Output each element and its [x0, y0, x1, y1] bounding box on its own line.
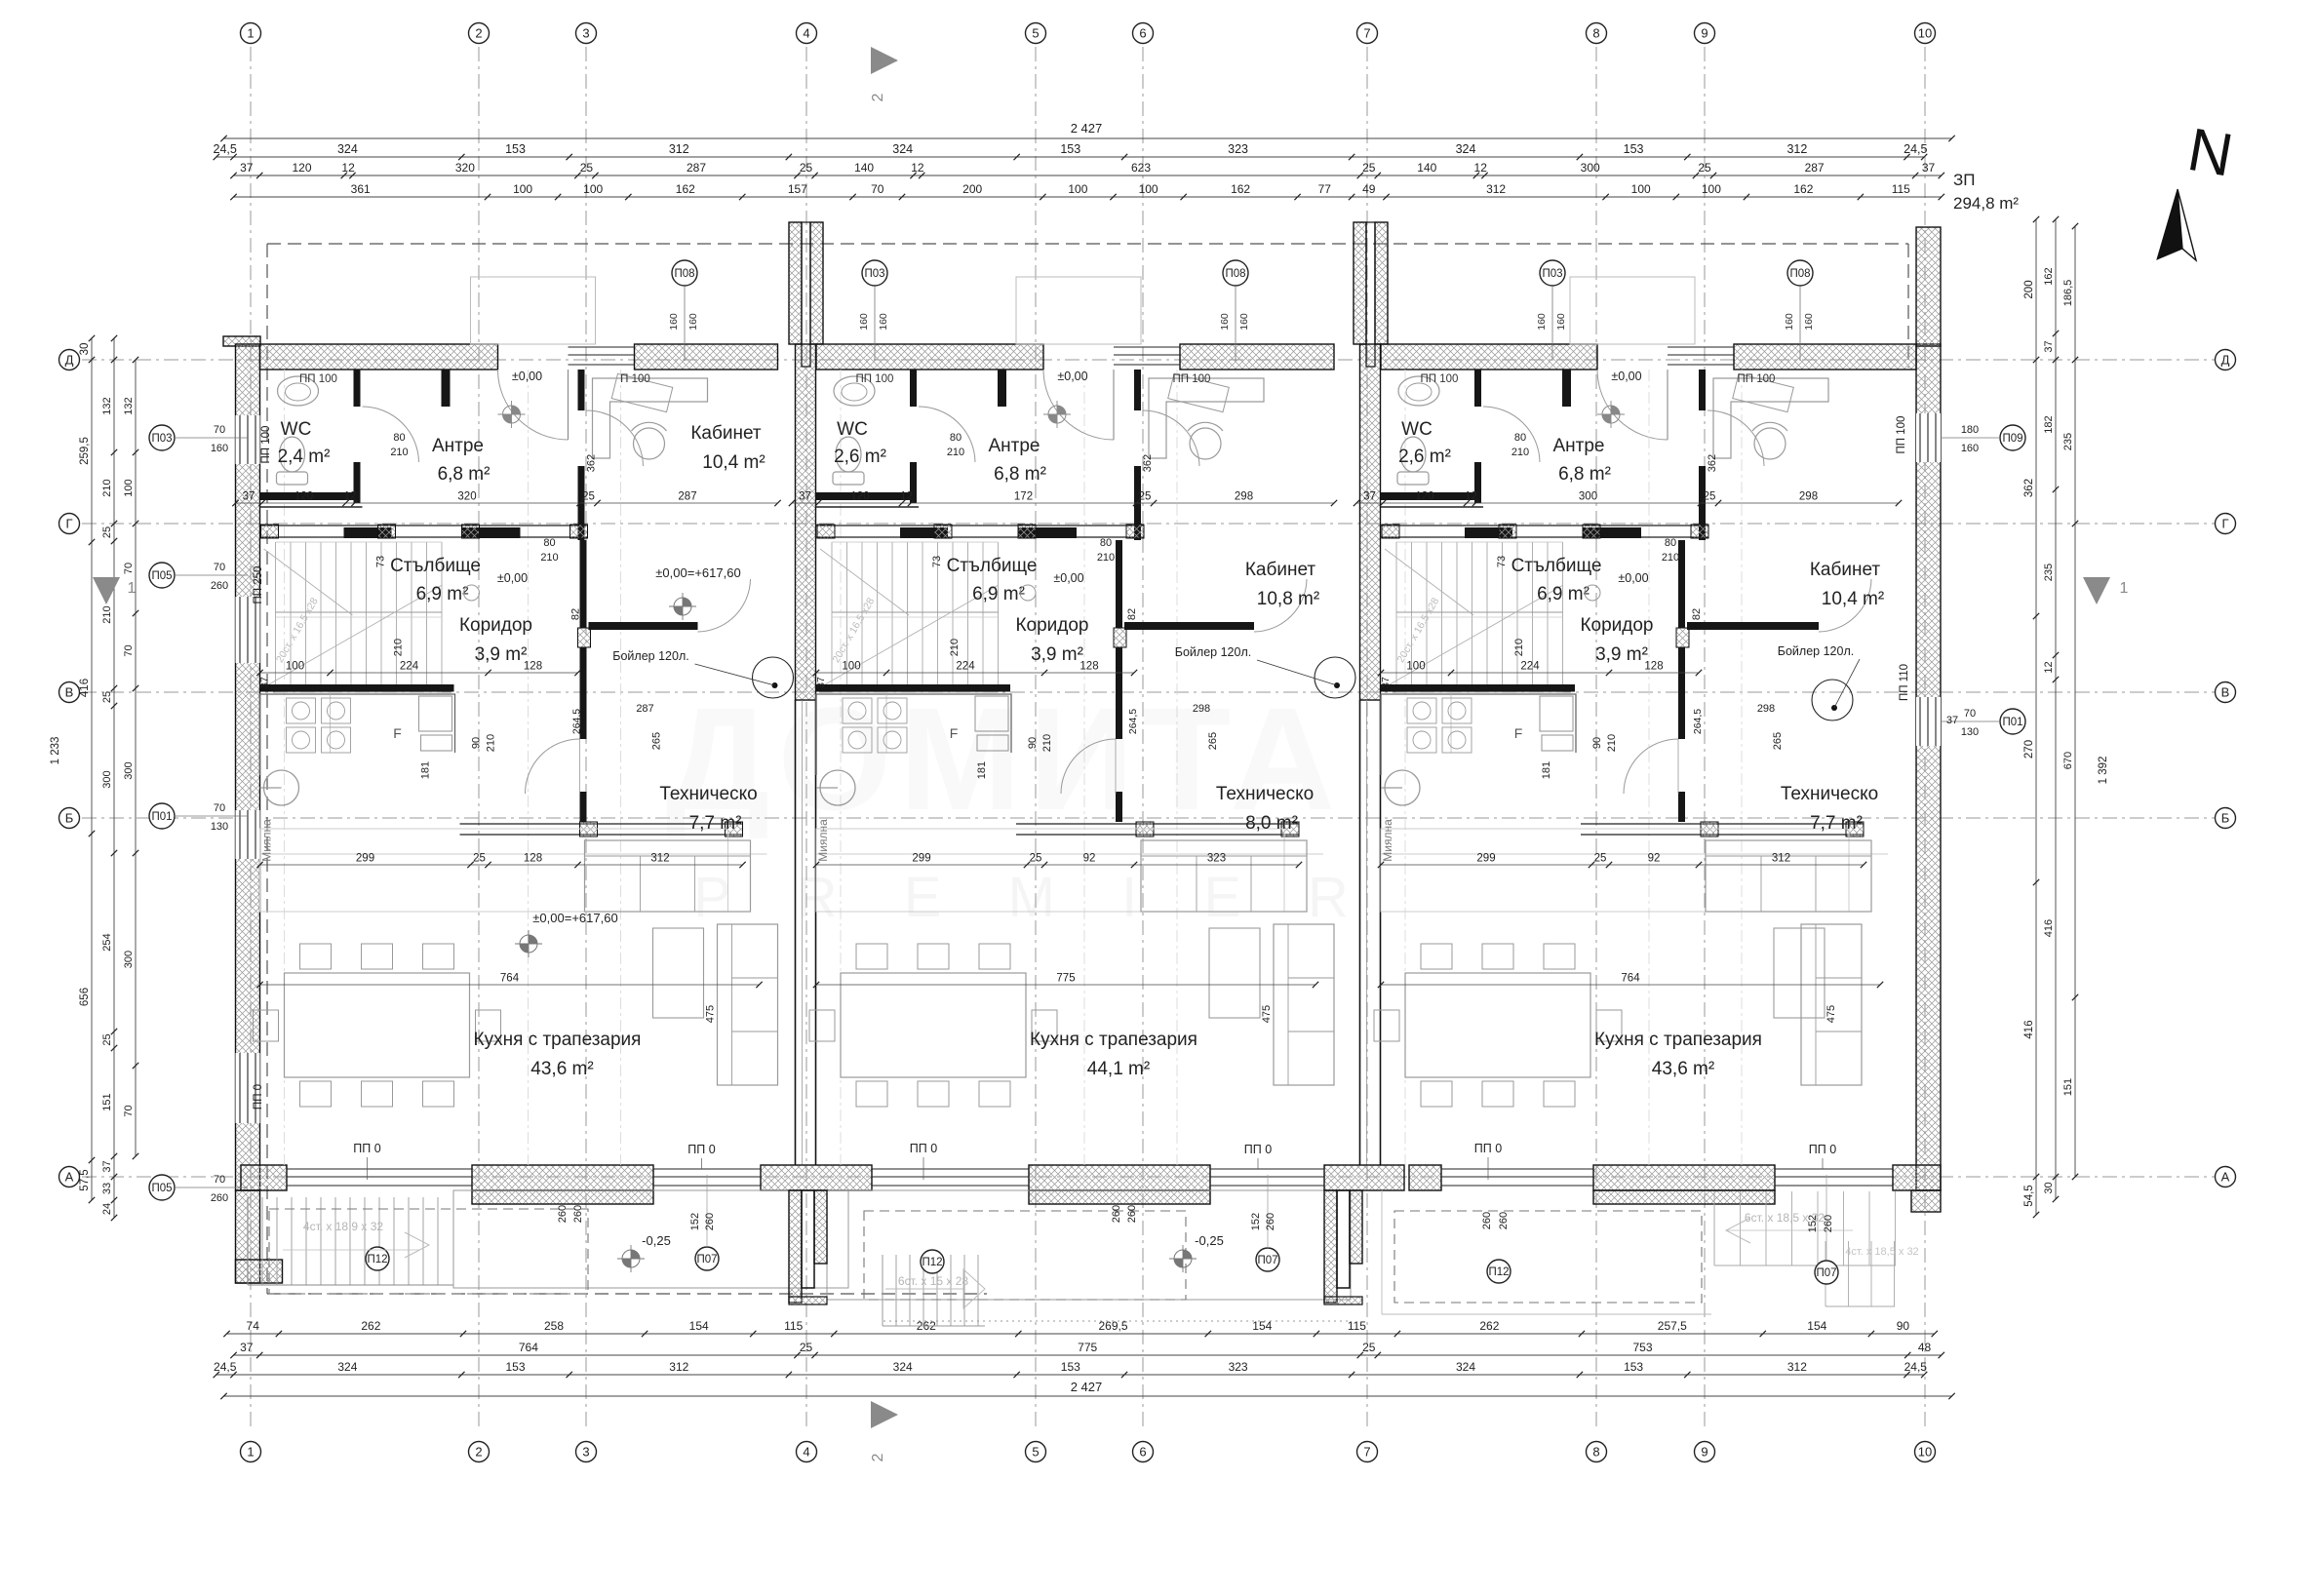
unit 3 boiler	[1812, 680, 1853, 720]
svg-text:152: 152	[1250, 1213, 1262, 1230]
svg-text:30: 30	[2043, 1182, 2055, 1193]
svg-text:48: 48	[1918, 1341, 1932, 1354]
svg-text:151: 151	[2062, 1078, 2074, 1096]
unit 2 interior dims	[792, 502, 1334, 504]
svg-text:24,5: 24,5	[1904, 1360, 1928, 1374]
svg-text:260: 260	[572, 1205, 584, 1223]
svg-text:А: А	[2221, 1169, 2230, 1184]
joint shafts above top wall	[789, 222, 802, 344]
svg-text:210: 210	[101, 605, 113, 623]
svg-text:П07: П07	[1816, 1267, 1836, 1279]
svg-text:Б: Б	[2221, 810, 2230, 825]
terrace unit 2 slab and stairs	[827, 1190, 1351, 1300]
svg-text:2 427: 2 427	[1071, 1380, 1103, 1394]
svg-text:±0,00: ±0,00	[497, 571, 528, 585]
svg-text:323: 323	[1229, 1360, 1248, 1374]
svg-text:162: 162	[676, 182, 695, 196]
svg-text:362: 362	[1142, 454, 1154, 472]
svg-text:210: 210	[101, 479, 113, 496]
svg-text:162: 162	[2043, 267, 2055, 285]
svg-text:П01: П01	[151, 811, 172, 823]
svg-text:162: 162	[1231, 182, 1250, 196]
svg-text:ПП 100: ПП 100	[260, 426, 272, 464]
svg-text:294,8 m²: 294,8 m²	[1953, 194, 2019, 213]
svg-text:160: 160	[668, 313, 680, 331]
svg-text:Техническо: Техническо	[1216, 784, 1314, 804]
svg-text:257,5: 257,5	[1658, 1319, 1687, 1333]
svg-text:475: 475	[1825, 1005, 1837, 1023]
svg-text:F: F	[393, 725, 402, 741]
svg-text:312: 312	[669, 1360, 688, 1374]
svg-text:287: 287	[678, 491, 696, 503]
svg-text:12: 12	[900, 491, 913, 503]
svg-text:200: 200	[962, 182, 982, 196]
svg-text:7: 7	[1363, 1444, 1370, 1459]
svg-text:П08: П08	[1225, 268, 1245, 280]
svg-text:±0,00: ±0,00	[1057, 370, 1087, 383]
svg-text:100: 100	[1139, 182, 1158, 196]
svg-text:10: 10	[1918, 1444, 1932, 1459]
svg-text:25: 25	[101, 691, 113, 703]
svg-text:30: 30	[79, 343, 91, 356]
svg-text:416: 416	[2043, 919, 2055, 937]
party walls	[796, 344, 816, 700]
svg-text:Техническо: Техническо	[1781, 784, 1878, 804]
svg-text:9: 9	[1701, 1444, 1708, 1459]
svg-text:5: 5	[1032, 25, 1039, 40]
svg-text:265: 265	[1772, 732, 1784, 750]
svg-text:В: В	[2221, 684, 2230, 699]
svg-text:25: 25	[1594, 853, 1607, 865]
svg-text:312: 312	[1486, 182, 1506, 196]
svg-text:324: 324	[1456, 142, 1476, 156]
svg-text:181: 181	[1541, 761, 1552, 779]
svg-text:П07: П07	[1257, 1255, 1277, 1266]
svg-text:224: 224	[1520, 661, 1540, 673]
svg-text:3,9 m²: 3,9 m²	[1595, 644, 1648, 665]
svg-text:132: 132	[101, 397, 113, 414]
svg-text:210: 210	[1097, 552, 1115, 564]
svg-text:656: 656	[79, 988, 91, 1006]
svg-text:254: 254	[101, 933, 113, 951]
svg-text:210: 210	[1041, 734, 1053, 752]
grid bubbles left	[59, 350, 80, 370]
svg-text:260: 260	[557, 1205, 569, 1223]
svg-text:10: 10	[1918, 25, 1932, 40]
svg-text:210: 210	[540, 552, 558, 564]
svg-text:4: 4	[803, 25, 809, 40]
svg-text:70: 70	[214, 1174, 225, 1186]
grid bubbles top	[241, 23, 261, 44]
svg-text:Антре: Антре	[1552, 436, 1604, 456]
svg-text:160: 160	[1784, 313, 1795, 331]
svg-text:115: 115	[784, 1319, 803, 1333]
svg-text:Стълбище: Стълбище	[1511, 556, 1602, 576]
svg-text:П03: П03	[1542, 268, 1562, 280]
svg-text:300: 300	[1581, 161, 1600, 175]
svg-text:П09: П09	[2002, 433, 2022, 445]
svg-text:F: F	[1514, 725, 1523, 741]
section marker 2 top	[871, 47, 898, 74]
svg-text:ПП 100: ПП 100	[856, 373, 894, 385]
svg-text:Антре: Антре	[432, 436, 484, 456]
grid axes horizontal A-D	[82, 359, 2235, 361]
svg-text:312: 312	[669, 142, 689, 156]
svg-text:ПП 0: ПП 0	[1474, 1142, 1502, 1155]
svg-text:312: 312	[650, 853, 669, 865]
svg-text:764: 764	[1621, 973, 1640, 985]
unit 2 kitchen band	[816, 829, 1284, 912]
svg-text:298: 298	[1757, 703, 1775, 715]
svg-text:475: 475	[705, 1005, 717, 1023]
svg-text:362: 362	[586, 454, 598, 472]
unit 1 interior dims	[236, 502, 778, 504]
svg-text:100: 100	[1068, 182, 1087, 196]
svg-text:312: 312	[1787, 1360, 1807, 1374]
svg-text:12: 12	[2043, 661, 2055, 673]
svg-text:Кабинет: Кабинет	[690, 423, 762, 444]
svg-text:120: 120	[1415, 491, 1433, 503]
svg-text:Техническо: Техническо	[659, 784, 757, 804]
svg-text:82: 82	[1126, 608, 1138, 620]
svg-text:1: 1	[128, 580, 137, 597]
svg-text:70: 70	[123, 1105, 135, 1116]
svg-text:100: 100	[842, 661, 860, 673]
unit 2 interior light axes	[840, 370, 842, 1165]
svg-text:153: 153	[505, 1360, 525, 1374]
svg-text:259,5: 259,5	[79, 437, 91, 465]
unit 3 interior light axes	[1404, 370, 1406, 1165]
svg-text:120: 120	[850, 491, 869, 503]
svg-text:160: 160	[878, 313, 889, 331]
svg-text:160: 160	[1803, 313, 1815, 331]
svg-text:Г: Г	[65, 516, 72, 530]
svg-text:210: 210	[1662, 552, 1679, 564]
svg-text:299: 299	[912, 853, 930, 865]
svg-text:320: 320	[455, 161, 475, 175]
svg-text:37: 37	[799, 491, 811, 503]
svg-text:210: 210	[393, 639, 405, 656]
svg-text:6,8 m²: 6,8 m²	[1558, 464, 1611, 485]
right dimension chains	[2035, 219, 2037, 1215]
unit 2 stairs	[831, 542, 833, 692]
svg-text:80: 80	[393, 432, 405, 444]
svg-text:260: 260	[1126, 1205, 1138, 1223]
svg-text:90: 90	[1591, 737, 1603, 749]
svg-text:80: 80	[543, 537, 555, 549]
right window bubbles	[2000, 425, 2025, 450]
svg-text:П05: П05	[151, 570, 172, 582]
svg-text:775: 775	[1056, 973, 1075, 985]
svg-text:264,5: 264,5	[1692, 709, 1704, 734]
svg-text:324: 324	[337, 142, 358, 156]
unit 1 kitchen	[260, 694, 455, 775]
svg-text:172: 172	[1014, 491, 1033, 503]
svg-text:154: 154	[689, 1319, 709, 1333]
svg-text:6: 6	[1139, 25, 1146, 40]
svg-text:100: 100	[1702, 182, 1721, 196]
svg-text:ПП 100: ПП 100	[299, 373, 337, 385]
svg-text:258: 258	[544, 1319, 564, 1333]
section marker 1 right	[2083, 577, 2110, 604]
svg-text:37: 37	[1363, 491, 1376, 503]
unit 3 walls	[1474, 370, 1481, 407]
top-left corner stub	[223, 336, 260, 346]
svg-text:160: 160	[1555, 313, 1567, 331]
unit 1 stairs	[275, 542, 277, 692]
svg-text:153: 153	[1624, 1360, 1643, 1374]
right wall foot	[1911, 1190, 1941, 1212]
svg-text:312: 312	[1786, 142, 1807, 156]
svg-text:182: 182	[2043, 415, 2055, 433]
svg-text:12: 12	[1465, 491, 1477, 503]
svg-text:80: 80	[1514, 432, 1526, 444]
svg-text:П05: П05	[151, 1183, 172, 1194]
unit 2 WC fixtures	[834, 376, 875, 406]
unit 3 sofas	[1706, 840, 1871, 912]
svg-text:П08: П08	[674, 268, 694, 280]
top-right corner shaft	[1916, 227, 1941, 346]
svg-text:120: 120	[294, 491, 313, 503]
terrace unit 3 stairs flight A	[1713, 1191, 1715, 1265]
svg-text:2: 2	[870, 93, 886, 101]
svg-text:210: 210	[1606, 734, 1618, 752]
svg-text:300: 300	[1579, 491, 1597, 503]
svg-text:6ст. x 15 x 28: 6ст. x 15 x 28	[898, 1274, 969, 1288]
svg-text:24,5: 24,5	[1904, 142, 1927, 156]
svg-text:Кухня с трапезария: Кухня с трапезария	[1594, 1030, 1762, 1050]
svg-text:ПП 0: ПП 0	[353, 1142, 380, 1155]
svg-text:262: 262	[361, 1319, 380, 1333]
svg-text:115: 115	[1348, 1319, 1366, 1333]
svg-text:300: 300	[123, 761, 135, 779]
svg-text:8: 8	[1592, 1444, 1599, 1459]
grid bubbles bottom	[241, 1442, 261, 1462]
svg-text:Кухня с трапезария: Кухня с трапезария	[474, 1030, 642, 1050]
svg-text:70: 70	[214, 424, 225, 436]
unit 3 kitchen band	[1381, 829, 1849, 912]
terrace unit 1 slab	[453, 1190, 848, 1288]
svg-text:90: 90	[1027, 737, 1039, 749]
svg-text:25: 25	[582, 491, 595, 503]
svg-text:299: 299	[356, 853, 374, 865]
svg-text:Стълбище: Стълбище	[947, 556, 1038, 576]
svg-text:1: 1	[247, 1444, 254, 1459]
svg-text:ЗП: ЗП	[1953, 171, 1976, 189]
svg-text:6: 6	[1139, 1444, 1146, 1459]
unit 3 dining table	[1405, 973, 1590, 1077]
left dimension chains	[91, 338, 93, 1200]
svg-text:287: 287	[636, 703, 653, 715]
svg-text:128: 128	[524, 661, 542, 673]
svg-text:324: 324	[337, 1360, 357, 1374]
unit 1 walls	[354, 370, 361, 407]
svg-text:37: 37	[2043, 340, 2055, 352]
svg-text:6,8 m²: 6,8 m²	[438, 464, 491, 485]
unit 3 interior dims	[1356, 502, 1899, 504]
grid bubbles right	[2216, 350, 2236, 370]
svg-text:Г: Г	[2221, 516, 2228, 530]
svg-text:Миялна: Миялна	[816, 819, 830, 862]
terrace parapets below bottom wall	[472, 1190, 653, 1204]
svg-text:82: 82	[1691, 608, 1703, 620]
svg-text:320: 320	[457, 491, 476, 503]
svg-text:210: 210	[949, 639, 961, 656]
svg-text:287: 287	[1805, 161, 1825, 175]
svg-text:Кухня с трапезария: Кухня с трапезария	[1030, 1030, 1197, 1050]
unit 3 kitchen	[1381, 694, 1576, 775]
svg-text:25: 25	[580, 161, 594, 175]
unit 3 stairs	[1395, 542, 1397, 692]
bottom wall	[241, 1165, 287, 1190]
svg-text:37: 37	[240, 1341, 254, 1354]
svg-text:37: 37	[1380, 677, 1392, 688]
svg-text:5: 5	[1032, 1444, 1039, 1459]
svg-text:37: 37	[259, 677, 271, 688]
svg-text:262: 262	[1479, 1319, 1499, 1333]
svg-text:152: 152	[1807, 1215, 1819, 1232]
unit 1 boiler	[753, 657, 794, 698]
party wall stubs below bottom wall	[789, 1190, 802, 1303]
svg-text:4ст. x 18,9 x 32: 4ст. x 18,9 x 32	[303, 1220, 384, 1233]
svg-text:100: 100	[1631, 182, 1651, 196]
svg-text:-0,25: -0,25	[642, 1233, 671, 1248]
svg-text:Б: Б	[65, 810, 74, 825]
svg-text:37: 37	[243, 491, 255, 503]
svg-text:224: 224	[400, 661, 419, 673]
svg-text:162: 162	[1793, 182, 1813, 196]
svg-text:323: 323	[1228, 142, 1248, 156]
svg-text:25: 25	[101, 526, 113, 538]
svg-text:25: 25	[473, 853, 486, 865]
svg-text:265: 265	[1207, 732, 1219, 750]
svg-text:153: 153	[1060, 142, 1080, 156]
svg-text:12: 12	[911, 161, 924, 175]
svg-text:160: 160	[1536, 313, 1548, 331]
svg-text:70: 70	[214, 562, 225, 573]
svg-text:2,4 m²: 2,4 m²	[278, 447, 331, 467]
svg-text:324: 324	[893, 1360, 913, 1374]
svg-text:180: 180	[1961, 424, 1979, 436]
svg-text:П03: П03	[864, 268, 884, 280]
svg-text:ПП 0: ПП 0	[1244, 1143, 1272, 1156]
svg-text:90: 90	[1897, 1319, 1910, 1333]
section marker 1 left	[93, 577, 120, 604]
svg-text:25: 25	[1362, 161, 1376, 175]
svg-text:260: 260	[704, 1213, 716, 1230]
svg-text:57,5: 57,5	[79, 1169, 91, 1190]
svg-text:100: 100	[286, 661, 304, 673]
svg-text:151: 151	[101, 1093, 113, 1110]
svg-text:Бойлер 120л.: Бойлер 120л.	[1778, 644, 1854, 658]
svg-text:361: 361	[351, 182, 371, 196]
svg-text:132: 132	[123, 397, 135, 414]
svg-text:6,8 m²: 6,8 m²	[994, 464, 1046, 485]
outer left wall	[236, 344, 260, 1190]
svg-text:2: 2	[475, 1444, 482, 1459]
svg-text:324: 324	[892, 142, 913, 156]
svg-text:92: 92	[1083, 853, 1096, 865]
unit 2 kitchen	[816, 694, 1011, 775]
svg-text:74: 74	[247, 1319, 260, 1333]
svg-text:ДОМИТА: ДОМИТА	[666, 677, 1344, 840]
svg-text:П12: П12	[922, 1257, 942, 1268]
unit 1 WC fixtures	[278, 376, 319, 406]
svg-text:37: 37	[1922, 161, 1936, 175]
svg-text:ПП 0: ПП 0	[1809, 1143, 1836, 1156]
svg-text:Коридор: Коридор	[459, 615, 532, 636]
svg-text:7,7 m²: 7,7 m²	[689, 813, 742, 834]
svg-text:100: 100	[513, 182, 532, 196]
svg-text:324: 324	[1456, 1360, 1475, 1374]
svg-text:260: 260	[211, 1192, 228, 1204]
svg-text:44,1 m²: 44,1 m²	[1087, 1059, 1150, 1079]
svg-text:130: 130	[211, 821, 228, 833]
outer wall window thin lines	[236, 415, 260, 464]
unit 3 WC fixtures	[1398, 376, 1439, 406]
svg-text:25: 25	[1030, 853, 1042, 865]
svg-text:128: 128	[524, 853, 542, 865]
svg-text:82: 82	[570, 608, 582, 620]
svg-text:115: 115	[1892, 182, 1910, 196]
svg-text:128: 128	[1079, 661, 1098, 673]
svg-text:4: 4	[803, 1444, 809, 1459]
unit 2 boiler	[1315, 657, 1355, 698]
svg-text:154: 154	[1252, 1319, 1272, 1333]
svg-text:Коридор: Коридор	[1015, 615, 1088, 636]
svg-text:54,5: 54,5	[2023, 1185, 2035, 1206]
unit 1 sofas	[585, 840, 751, 912]
svg-text:210: 210	[947, 447, 964, 458]
svg-text:Миялна: Миялна	[260, 819, 274, 862]
svg-text:12: 12	[341, 161, 355, 175]
unit 1 interior light axes	[284, 370, 286, 1165]
svg-text:260: 260	[1498, 1212, 1510, 1229]
svg-text:154: 154	[1807, 1319, 1826, 1333]
unit 2 walls	[910, 370, 917, 407]
svg-text:8: 8	[1592, 25, 1599, 40]
svg-text:10,4 m²: 10,4 m²	[702, 452, 765, 473]
svg-text:25: 25	[1704, 491, 1716, 503]
svg-text:264,5: 264,5	[1127, 709, 1139, 734]
svg-text:260: 260	[1823, 1215, 1834, 1232]
svg-text:2,6 m²: 2,6 m²	[834, 447, 886, 467]
svg-text:Кабинет: Кабинет	[1810, 560, 1881, 580]
svg-text:Бойлер 120л.: Бойлер 120л.	[612, 649, 688, 663]
svg-text:Д: Д	[65, 352, 74, 367]
unit 3 desk and chair	[1713, 378, 1828, 458]
svg-text:24,5: 24,5	[214, 142, 237, 156]
svg-text:П 100: П 100	[620, 373, 650, 385]
svg-text:160: 160	[858, 313, 870, 331]
svg-text:-0,25: -0,25	[1195, 1233, 1224, 1248]
svg-text:186,5: 186,5	[2062, 280, 2074, 307]
svg-text:264,5: 264,5	[571, 709, 583, 734]
svg-text:37: 37	[1946, 715, 1958, 726]
svg-text:299: 299	[1476, 853, 1495, 865]
svg-text:6,9 m²: 6,9 m²	[1537, 584, 1590, 604]
svg-text:416: 416	[79, 679, 91, 697]
svg-text:±0,00=+617,60: ±0,00=+617,60	[655, 565, 740, 580]
svg-text:764: 764	[500, 973, 520, 985]
svg-text:298: 298	[1193, 703, 1210, 715]
svg-text:12: 12	[344, 491, 357, 503]
svg-text:12: 12	[1474, 161, 1488, 175]
svg-text:323: 323	[1207, 853, 1226, 865]
svg-text:24,5: 24,5	[214, 1360, 237, 1374]
svg-text:130: 130	[1961, 726, 1979, 738]
svg-text:300: 300	[101, 770, 113, 788]
